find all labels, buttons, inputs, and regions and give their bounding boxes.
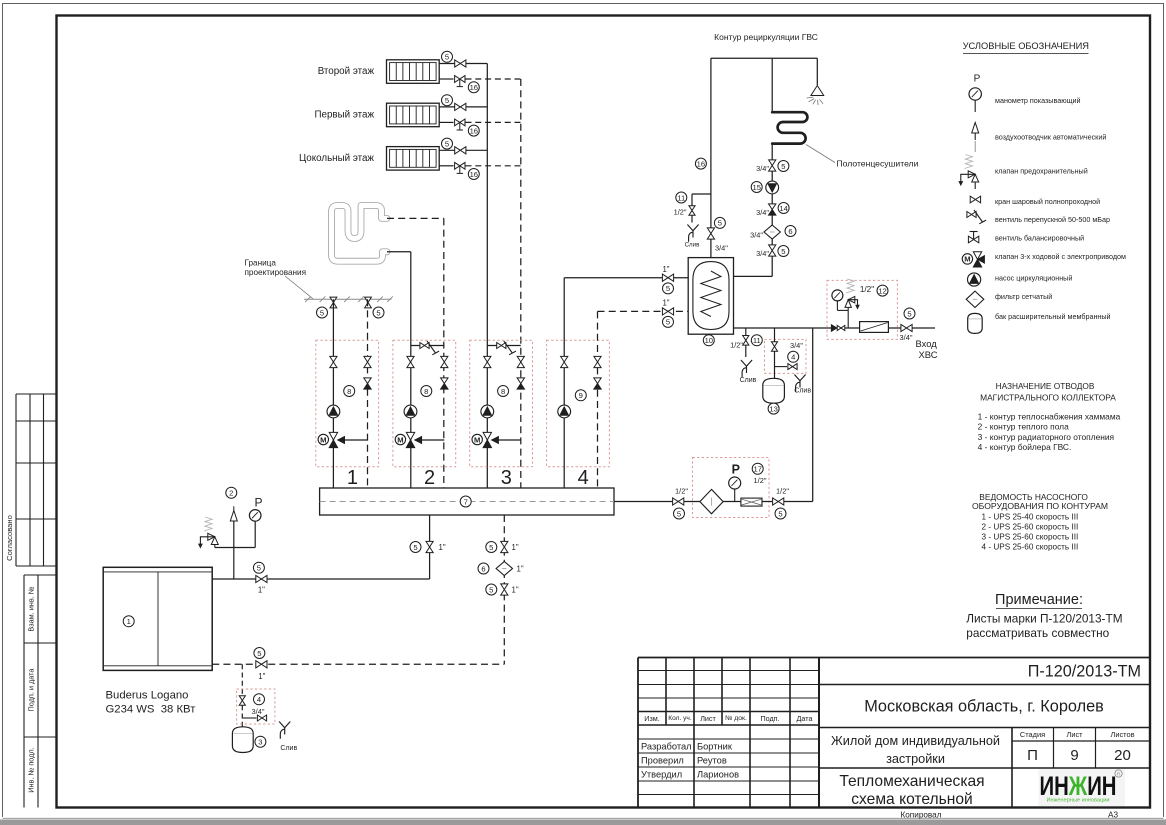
svg-text:Лист: Лист: [700, 714, 716, 723]
svg-text:16: 16: [470, 83, 478, 92]
collector supply stub valve: [426, 541, 433, 552]
air vent 2 assembly: [233, 521, 235, 579]
svg-text:Слив: Слив: [685, 242, 701, 249]
svg-text:3/4": 3/4": [750, 231, 763, 240]
radiator 1 return valve 16 with drain: [455, 76, 465, 83]
svg-text:клапан 3-х ходовой с электропр: клапан 3-х ходовой с электроприводом: [995, 252, 1126, 261]
tank top valve: [707, 228, 714, 239]
circuit 1 label 8: [344, 386, 355, 397]
svg-text:10: 10: [705, 336, 713, 345]
tank outlet valve 1 inch: [662, 308, 673, 315]
boiler label circle 1: [123, 616, 134, 627]
svg-text:ХВС: ХВС: [919, 349, 938, 360]
radiator 3 supply valve 5: [455, 147, 466, 154]
radiator return riser: [520, 79, 522, 488]
floor heating coil: [332, 206, 388, 262]
svg-text:4: 4: [257, 695, 261, 704]
svg-text:5: 5: [445, 53, 449, 62]
circuit 3 bypass with arrow: [492, 439, 521, 441]
tank top pipe: [710, 58, 712, 257]
group 4 tank valve: [771, 342, 777, 352]
legend 3-way valve symbol: [973, 252, 981, 260]
svg-text:Слив: Слив: [280, 745, 297, 752]
coil return pipe dashed: [387, 217, 444, 219]
legend overflow valve symbol: [967, 212, 976, 218]
svg-text:1: 1: [127, 617, 131, 626]
svg-text:1": 1": [258, 586, 265, 595]
radiator 1 supply pipe: [439, 63, 487, 65]
svg-text:4 - контур бойлера ГВС.: 4 - контур бойлера ГВС.: [978, 442, 1072, 452]
expansion tank 3: [232, 727, 253, 753]
circuit 4 supply valve: [561, 356, 568, 367]
expansion branch dashed: [241, 664, 243, 727]
svg-text:5: 5: [257, 649, 261, 658]
svg-text:9: 9: [1070, 747, 1078, 764]
radiator 2 supply valve 5: [455, 103, 466, 110]
svg-text:3: 3: [501, 467, 512, 489]
group 4 tank drain valve: [775, 366, 788, 368]
svg-text:5: 5: [445, 139, 449, 148]
svg-text:3/4": 3/4": [252, 707, 265, 716]
svg-text:P: P: [974, 74, 981, 85]
circuit 1 boundary box: [316, 340, 379, 467]
group 17 valve left: [673, 498, 684, 505]
svg-text:5: 5: [677, 509, 681, 518]
circuit 2 bypass with arrow: [415, 439, 444, 441]
svg-text:Листы марки П-120/2013-ТМ: Листы марки П-120/2013-ТМ: [966, 612, 1122, 626]
svg-text:Разработал: Разработал: [641, 742, 692, 752]
svg-text:2: 2: [424, 467, 435, 489]
svg-text:Согласовано: Согласовано: [5, 515, 14, 561]
svg-text:Московская область, г. Королев: Московская область, г. Королев: [864, 698, 1104, 716]
legend ball valve symbol: [970, 196, 980, 203]
svg-text:№ док.: № док.: [725, 715, 747, 722]
cold water inlet valve: [901, 324, 912, 331]
svg-text:Слив: Слив: [794, 388, 811, 395]
svg-text:G234 WS 38 КВт: G234 WS 38 КВт: [106, 704, 196, 716]
circuit 2 3-way valve M: [406, 432, 414, 440]
svg-text:клапан предохранительный: клапан предохранительный: [995, 167, 1088, 176]
circuit 1 pump: [327, 405, 340, 418]
svg-text:Дата: Дата: [797, 714, 813, 723]
svg-text:16: 16: [470, 126, 478, 135]
svg-text:2 - контур теплого пола: 2 - контур теплого пола: [978, 422, 1069, 432]
svg-text:5: 5: [907, 309, 911, 318]
svg-text:4: 4: [578, 467, 589, 489]
svg-text:11: 11: [677, 193, 685, 202]
circuit 1 supply pipe: [332, 299, 334, 488]
svg-text:1": 1": [517, 564, 524, 573]
group 17 labels: [752, 463, 763, 474]
svg-text:16: 16: [470, 170, 478, 179]
svg-text:Инженерные инновации: Инженерные инновации: [1047, 798, 1110, 804]
radiator 1 return pipe: [439, 78, 453, 80]
svg-text:Подп.: Подп.: [760, 714, 779, 723]
radiator floor 1: [387, 60, 440, 84]
svg-text:3 - контур радиаторного отопле: 3 - контур радиаторного отопления: [978, 432, 1115, 442]
svg-text:Инв. № подл.: Инв. № подл.: [27, 747, 36, 792]
tank safety group 4 box: [765, 339, 807, 373]
radiator floor 3: [387, 147, 440, 171]
legend balancing valve symbol: [968, 236, 978, 243]
radiator 2 return pipe: [439, 121, 453, 123]
circuit 1 supply valve: [330, 356, 337, 367]
group 4 valve: [239, 696, 245, 706]
svg-text:3/4": 3/4": [756, 208, 769, 217]
circuit 1 bypass with arrow: [338, 439, 368, 441]
svg-text:воздухоотводчик автоматический: воздухоотводчик автоматический: [995, 133, 1106, 142]
svg-text:3/4": 3/4": [715, 244, 728, 253]
group 17 filter: [700, 489, 723, 513]
group 12 manometer: [836, 301, 838, 310]
svg-text:Кол. уч.: Кол. уч.: [668, 715, 692, 722]
svg-text:5: 5: [257, 564, 261, 573]
collector 7: [320, 488, 614, 515]
svg-text:3 - UPS 25-60 скорость III: 3 - UPS 25-60 скорость III: [982, 533, 1079, 542]
boiler manometer P: [254, 521, 256, 547]
svg-text:фильтр сетчатый: фильтр сетчатый: [995, 292, 1052, 301]
svg-text:13: 13: [769, 404, 777, 413]
group 17 manometer: [734, 489, 736, 502]
svg-text:Бортник: Бортник: [697, 742, 733, 752]
radiator supply riser: [486, 64, 488, 489]
svg-text:5: 5: [666, 318, 670, 327]
radiator floor 2: [387, 103, 440, 127]
svg-text:20: 20: [1114, 747, 1131, 764]
svg-text:3/4": 3/4": [756, 164, 769, 173]
circuit 2 crossover with overflow valve: [411, 345, 445, 347]
svg-text:1/2": 1/2": [675, 487, 688, 496]
circuit 3 crossover with overflow valve: [487, 345, 521, 347]
cold water line: [734, 327, 936, 329]
drain branch 11 lower: [745, 328, 747, 357]
circuit 4 label 9: [575, 390, 586, 401]
svg-text:5: 5: [320, 308, 324, 317]
circuit 1 return pipe: [367, 299, 369, 488]
svg-text:Изм.: Изм.: [644, 714, 659, 723]
svg-text:проектирования: проектирования: [245, 268, 307, 277]
legend expansion tank symbol: [968, 313, 983, 333]
radiator 3 return valve 16 with drain: [455, 162, 465, 169]
boiler supply valve 1 inch: [256, 575, 267, 582]
svg-text:Первый этаж: Первый этаж: [314, 109, 374, 120]
svg-text:1": 1": [512, 543, 519, 552]
collector return valve bottom: [501, 584, 508, 595]
boiler expansion group 4 box: [237, 689, 275, 724]
group 12 safety valve: [847, 310, 849, 328]
svg-text:Ларионов: Ларионов: [697, 770, 739, 780]
svg-text:Подп. и дата: Подп. и дата: [27, 668, 36, 712]
shower outlet: [816, 58, 818, 85]
svg-text:8: 8: [347, 387, 351, 396]
circuit 2 check valve: [441, 378, 448, 384]
svg-text:5: 5: [718, 219, 722, 228]
svg-text:14: 14: [779, 204, 787, 213]
svg-text:П: П: [1027, 747, 1038, 764]
svg-text:1": 1": [662, 265, 669, 274]
circuit 4 check valve: [594, 378, 601, 384]
svg-text:2: 2: [229, 489, 233, 498]
svg-text:1: 1: [347, 467, 358, 489]
legend filter symbol: [966, 291, 984, 307]
svg-text:ОБОРУДОВАНИЯ ПО КОНТУРАМ: ОБОРУДОВАНИЯ ПО КОНТУРАМ: [972, 501, 1108, 511]
make-up pipe from collector: [614, 501, 813, 503]
circuit 3 pump: [481, 405, 494, 418]
svg-text:1/2": 1/2": [860, 285, 874, 294]
left stamp grid: [15, 394, 17, 566]
svg-text:Листов: Листов: [1110, 730, 1134, 739]
logo ИНЖИН: [1039, 769, 1126, 806]
svg-text:Buderus Logano: Buderus Logano: [106, 690, 189, 702]
legend pump symbol: [968, 273, 981, 286]
circuit 4 boundary box: [547, 340, 610, 467]
circuit 2 supply valve: [407, 356, 414, 367]
svg-text:Реутов: Реутов: [697, 756, 727, 766]
svg-text:Жилой дом индивидуальной: Жилой дом индивидуальной: [831, 734, 1000, 748]
svg-text:НАЗНАЧЕНИЕ ОТВОДОВ: НАЗНАЧЕНИЕ ОТВОДОВ: [996, 381, 1095, 391]
svg-text:Тепломеханическая: Тепломеханическая: [839, 773, 984, 790]
title right grid: [819, 684, 1150, 686]
hot water tank 10: [688, 258, 733, 335]
svg-text:Взам. инв. №: Взам. инв. №: [27, 586, 36, 631]
svg-text:1 - UPS 25-40 скорость III: 1 - UPS 25-40 скорость III: [982, 512, 1079, 521]
svg-text:рассматривать совместно: рассматривать совместно: [966, 626, 1109, 640]
drain branch 11 upper: [692, 193, 711, 195]
svg-text:Утвердил: Утвердил: [641, 770, 682, 780]
collector return filter 6: [496, 562, 512, 576]
svg-text:1/2": 1/2": [754, 476, 767, 485]
tank branch to vessel 13: [774, 328, 776, 378]
svg-text:кран шаровый полнопроходной: кран шаровый полнопроходной: [995, 197, 1100, 206]
svg-text:1 - контур теплоснабжения хамм: 1 - контур теплоснабжения хаммама: [978, 411, 1121, 421]
radiator 2 supply pipe: [439, 106, 487, 108]
svg-text:3: 3: [258, 738, 262, 747]
sheet bottom grey band: [0, 820, 1166, 825]
svg-text:11: 11: [753, 336, 761, 345]
circuit 3 3-way valve M: [483, 432, 491, 440]
svg-text:2 - UPS 25-60 скорость III: 2 - UPS 25-60 скорость III: [982, 522, 1079, 531]
svg-text:Вход: Вход: [916, 338, 938, 349]
svg-text:M: M: [474, 435, 480, 444]
circuit 4 pump: [558, 405, 571, 418]
svg-text:бак расширительный мембранный: бак расширительный мембранный: [995, 312, 1111, 321]
svg-text:17: 17: [753, 465, 761, 474]
svg-text:4 - UPS 25-60 скорость III: 4 - UPS 25-60 скорость III: [982, 543, 1079, 552]
svg-text:Цокольный этаж: Цокольный этаж: [299, 153, 374, 164]
towel valve lower: [769, 245, 776, 256]
svg-text:3/4": 3/4": [756, 249, 769, 258]
design boundary line: [304, 298, 392, 300]
svg-text:5: 5: [376, 308, 380, 317]
towel return pipe: [771, 144, 773, 277]
svg-text:застройки: застройки: [886, 752, 945, 766]
svg-text:манометр показывающий: манометр показывающий: [995, 96, 1081, 105]
svg-text:1/2": 1/2": [674, 208, 687, 217]
group 17 water meter: [741, 498, 762, 506]
towel rail drop: [771, 58, 773, 111]
svg-text:МАГИСТРАЛЬНОГО КОЛЛЕКТОРА: МАГИСТРАЛЬНОГО КОЛЛЕКТОРА: [980, 393, 1116, 403]
svg-text:ИНЖИН: ИНЖИН: [1040, 771, 1117, 801]
expansion vessel 13: [763, 378, 785, 403]
drain near vessel 13: [794, 375, 805, 392]
boundary valve supply: [330, 297, 337, 308]
boundary valve return: [365, 297, 372, 308]
towel check valve 14: [769, 204, 776, 210]
safety valve on boiler: [214, 545, 216, 548]
svg-text:6: 6: [788, 227, 792, 236]
circuit 2 pump: [404, 405, 417, 418]
svg-text:Второй этаж: Второй этаж: [318, 66, 375, 77]
collector supply stub to boiler: [429, 515, 431, 579]
legend air vent symbol: [974, 126, 976, 140]
svg-text:16: 16: [697, 159, 705, 168]
circuit 1 3-way valve M: [329, 432, 337, 440]
svg-text:8: 8: [424, 387, 428, 396]
svg-text:УСЛОВНЫЕ ОБОЗНАЧЕНИЯ: УСЛОВНЫЕ ОБОЗНАЧЕНИЯ: [963, 41, 1089, 51]
radiator 2 return valve 16 with drain: [455, 119, 465, 126]
svg-text:насос циркуляционный: насос циркуляционный: [995, 274, 1072, 283]
svg-text:1": 1": [512, 585, 519, 594]
circuit 4 return valve: [594, 356, 601, 367]
towel rail coil: [772, 112, 807, 143]
svg-text:3/4": 3/4": [900, 333, 913, 342]
svg-text:вентиль балансировочный: вентиль балансировочный: [995, 234, 1084, 243]
svg-text:6: 6: [481, 564, 485, 573]
svg-text:12: 12: [878, 286, 886, 295]
svg-text:5: 5: [445, 96, 449, 105]
circuit 3 check valve: [517, 378, 524, 384]
circuit 3 supply valve: [484, 356, 491, 367]
towel pump 15: [766, 181, 779, 194]
svg-text:1": 1": [662, 299, 669, 308]
water meter group 12 box: [827, 280, 897, 339]
svg-text:Стадия: Стадия: [1020, 730, 1045, 739]
circuit 4 supply pipe: [563, 278, 565, 488]
svg-text:Граница: Граница: [245, 259, 277, 268]
boiler 1 Buderus: [103, 567, 212, 670]
svg-text:1": 1": [258, 672, 265, 681]
towel valve upper: [769, 160, 776, 171]
svg-text:M: M: [320, 435, 326, 444]
coil supply pipe: [387, 251, 411, 253]
svg-text:Слив: Слив: [740, 377, 757, 384]
svg-text:Контур рециркуляции ГВС: Контур рециркуляции ГВС: [714, 32, 818, 42]
svg-text:15: 15: [752, 183, 760, 192]
svg-text:5: 5: [778, 509, 782, 518]
svg-text:А3: А3: [1108, 811, 1118, 820]
svg-text:П-120/2013-ТМ: П-120/2013-ТМ: [1028, 663, 1141, 681]
svg-text:5: 5: [781, 162, 785, 171]
label circle 2: [226, 487, 237, 498]
svg-text:7: 7: [464, 497, 468, 506]
svg-text:5: 5: [781, 247, 785, 256]
boiler return valve 1 inch: [256, 661, 267, 668]
svg-text:1": 1": [439, 543, 446, 552]
circuit 3 label 8: [498, 386, 509, 397]
svg-text:1/2": 1/2": [730, 340, 743, 349]
svg-text:вентиль перепускной 50-500 мБа: вентиль перепускной 50-500 мБар: [995, 215, 1110, 224]
svg-text:Примечание:: Примечание:: [995, 592, 1083, 608]
tank label circle 10: [703, 335, 714, 346]
circuit 2 label 8: [421, 386, 432, 397]
circuit 2 boundary box: [393, 340, 456, 467]
svg-text:4: 4: [791, 353, 795, 362]
circuit 3 return valve: [517, 356, 524, 367]
make-up water riser: [812, 328, 814, 502]
group 17 valve right: [773, 498, 784, 505]
recirculation top line: [711, 57, 817, 59]
collector return stub: [503, 515, 505, 664]
svg-text:3/4": 3/4": [790, 341, 803, 350]
svg-text:Копировал: Копировал: [900, 811, 941, 820]
svg-text:8: 8: [501, 387, 505, 396]
label Полотенцесушители: [806, 145, 835, 163]
group 12 check valve: [831, 325, 837, 332]
svg-text:1/2": 1/2": [776, 487, 789, 496]
group 4 drain valve: [242, 717, 256, 719]
radiator 3 supply pipe: [439, 149, 487, 151]
svg-text:Лист: Лист: [1066, 730, 1083, 739]
svg-text:схема котельной: схема котельной: [851, 791, 972, 808]
tank inlet valve 1 inch: [662, 274, 673, 281]
title block grid: [637, 658, 639, 808]
boiler return pipe dashed: [212, 663, 504, 665]
svg-text:5: 5: [413, 543, 417, 552]
circuit 3 boundary box: [470, 340, 533, 467]
circuit 1 check valve: [364, 378, 371, 384]
svg-text:M: M: [964, 255, 970, 264]
svg-text:9: 9: [579, 391, 583, 400]
circuit 4 return pipe: [597, 311, 599, 488]
svg-text:5: 5: [489, 585, 493, 594]
group 12 water meter: [860, 322, 889, 333]
svg-text:Проверил: Проверил: [641, 756, 684, 766]
towel filter 6: [764, 225, 780, 239]
radiator 3 return pipe: [439, 165, 453, 167]
drain near tank 3: [279, 722, 290, 739]
make-up group 17 box: [693, 458, 770, 518]
svg-text:P: P: [732, 463, 740, 477]
collector return valve top: [501, 541, 508, 552]
svg-text:5: 5: [489, 543, 493, 552]
boiler supply pipe: [212, 578, 429, 580]
svg-text:5: 5: [666, 284, 670, 293]
svg-text:P: P: [254, 496, 262, 510]
circuit 2 return valve: [441, 356, 448, 367]
svg-text:M: M: [397, 435, 403, 444]
label circle 16 riser: [695, 158, 706, 169]
svg-text:Полотенцесушители: Полотенцесушители: [837, 159, 919, 169]
circuit 1 return valve: [364, 356, 371, 367]
legend safety valve symbol: [974, 141, 976, 152]
radiator 1 supply valve 5: [455, 60, 466, 67]
